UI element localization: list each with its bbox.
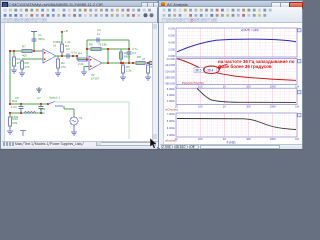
wire switch upper throw to plot node (light green) [55,102,129,140]
svg-text:LF157: LF157 [91,77,100,81]
resistor R5 2.2k [120,65,132,80]
wire X2 plus input ground arrow [81,67,89,76]
plot 3 y labels [167,87,176,103]
svg-text:C3: C3 [132,51,136,55]
svg-text:270: 270 [61,65,66,69]
svg-text:1.000u: 1.000u [167,133,176,137]
svg-text:10K: 10K [246,105,251,109]
phase plot label [182,81,204,85]
svg-text:680k: 680k [124,55,131,59]
svg-text:R6: R6 [89,43,93,47]
svg-text:1M: 1M [295,84,299,88]
svg-text:C2: C2 [66,47,70,51]
svg-text:100K: 100K [270,84,276,88]
svg-text:-72.000: -72.000 [166,57,176,61]
resistor R11 160k [12,99,17,103]
wire lower rail 1 [9,103,49,105]
svg-text:R11: R11 [12,99,17,103]
node +B power [61,29,68,33]
capacitor C6 [11,96,24,113]
bottom desktop edge [0,149,303,150]
svg-text:72k: 72k [40,111,45,115]
svg-text:R8: R8 [137,55,141,59]
blue gain curve [177,39,296,52]
svg-text:V1: V1 [79,116,83,120]
svg-text:X1: X1 [53,44,57,48]
svg-text:8.000: 8.000 [168,27,175,31]
red arrow [218,64,228,70]
resistor R9 680k [120,51,131,59]
source V1 sine [70,116,83,125]
plot 4 x labels [175,137,300,141]
plot 1 y labels [168,27,175,59]
wire left input column [9,50,11,104]
svg-text:+B: +B [64,29,68,33]
ground marker bottom left [20,130,26,136]
plot 1 gain frame [176,28,297,57]
svg-text:RL: RL [151,65,153,69]
svg-text:3.000u: 3.000u [167,126,176,130]
wire input rail [10,50,43,52]
plot 4 frame [176,113,297,137]
svg-text:5.000u: 5.000u [167,119,176,123]
resistor R12 72k [40,107,46,115]
svg-text:47k: 47k [17,61,22,65]
svg-text:100K: 100K [270,137,276,141]
svg-text:R4: R4 [78,52,82,56]
ground below V1 [71,125,77,135]
red annotation text [218,59,295,69]
svg-text:PH(v(OUT)/v(IN)): PH(v(OUT)/v(IN)) [182,81,204,85]
cursor readout boxes [194,67,217,74]
svg-text:47: 47 [142,57,146,61]
resistor R13 160k label [12,115,19,119]
left window: schematic editor [0,0,158,149]
svg-text:4.7n: 4.7n [71,51,77,55]
resistor R8 47 [136,55,146,65]
ground below R10 [7,126,13,134]
svg-text:1M: 1M [295,105,299,109]
svg-text:10K: 10K [246,84,251,88]
svg-text:100: 100 [198,137,203,141]
resistor R3 vertical from +B [61,32,72,56]
svg-text:450p: 450p [38,37,45,41]
resistor R7 [22,45,32,58]
op-amp X2 [89,56,102,81]
svg-text:1.0u: 1.0u [11,105,17,109]
capacitor C2 [66,47,77,59]
svg-text:2.2k: 2.2k [126,69,132,73]
svg-text:10: 10 [175,84,178,88]
plot 1 title [241,28,259,32]
feedback loop top wire [87,40,129,63]
svg-text:-144.000: -144.000 [164,63,175,67]
wire rail2 down leg [120,49,122,64]
wire lower throw to V1 [64,106,74,117]
wire feedback connects output [107,48,109,63]
svg-text:2.2k: 2.2k [78,62,84,66]
svg-text:100K: 100K [270,105,276,109]
svg-text:C7: C7 [37,96,41,100]
legend markers [298,29,301,117]
svg-text:v(Onoise): v(Onoise) [165,108,178,112]
resistor R2 270 [55,56,66,76]
resistor RB 270 [21,61,30,69]
svg-text:1K: 1K [223,105,226,109]
red phase curve [177,59,296,81]
svg-text:60k: 60k [13,121,18,125]
resistor R4 input to X2 [76,52,89,67]
mouse cursor [149,138,159,150]
ground below RA [11,66,17,73]
black onoise curve [197,88,296,102]
ground top of lower section [36,87,42,93]
plot 3 label [165,108,178,112]
svg-text:36.5: 36.5 [195,69,201,73]
axis label F(Hz) [227,141,236,145]
black inoise curve [177,119,296,130]
svg-text:270: 270 [25,65,30,69]
capacitor C1 [31,32,45,52]
svg-text:10K: 10K [246,137,251,141]
inductor L1 [24,112,36,114]
resistor R10 60k [9,113,19,126]
plot 2 y labels [164,57,175,85]
svg-text:-36.4: -36.4 [206,69,213,73]
svg-text:1.000n: 1.000n [167,99,176,103]
plot 2 x labels [175,84,300,88]
plot 3 frame [176,88,297,104]
capacitor C5 4.7u [127,47,139,64]
svg-text:4.000: 4.000 [168,41,175,45]
svg-text:1K: 1K [223,84,226,88]
svg-text:-288.000: -288.000 [164,76,175,80]
capacitor C4 [97,28,101,43]
svg-text:6.000: 6.000 [168,34,175,38]
svg-text:1u: 1u [97,32,101,36]
svg-text:v(Inoise): v(Inoise) [165,139,177,143]
right window: AC Analysis plots [158,0,303,149]
plot 4 label [165,139,177,143]
svg-text:v(OUT) / v(IN): v(OUT) / v(IN) [241,28,259,32]
capacitor C7 [37,96,44,113]
svg-text:1M: 1M [295,137,299,141]
svg-text:Switch 1: Switch 1 [49,96,60,100]
switch Switch1 [48,96,63,107]
resistor RA 47k [13,51,22,66]
svg-text:-216.000: -216.000 [164,69,175,73]
red ellipse highlight [204,66,220,74]
op-amp X1 [43,40,62,63]
plot 3 x labels [175,105,300,109]
wire op-amp X1 output rail [56,55,77,57]
svg-text:100: 100 [198,105,203,109]
wire lower rail 2 [9,112,42,114]
svg-text:2.000: 2.000 [168,48,175,52]
plot 2 phase frame [176,59,297,85]
node OUT [150,62,153,65]
svg-text:100: 100 [198,84,203,88]
ground below RB [19,69,25,76]
resistor R6 75.18k [86,43,130,51]
svg-text:5.000n: 5.000n [167,87,176,91]
resistor RL output load [145,65,155,80]
svg-text:75.18k: 75.18k [98,43,107,47]
svg-text:400: 400 [22,54,27,58]
plot 4 y labels [167,112,176,137]
svg-text:R7: R7 [22,45,26,49]
svg-text:3.000n: 3.000n [167,93,176,97]
wire X2 output rail [102,62,151,64]
wire X1 plus input to RB [22,59,43,61]
svg-text:7.000u: 7.000u [167,112,176,116]
node junction dots input rail [13,50,35,52]
